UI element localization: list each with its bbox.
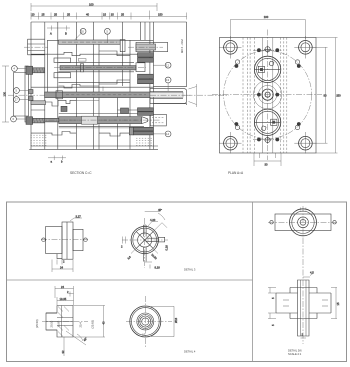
svg-text:25.4: 25.4 [79, 322, 83, 328]
top-left nozzle block [28, 39, 46, 55]
vertical divider [252, 202, 254, 362]
dim 3.27 [70, 214, 82, 221]
bolt circle dashed [224, 51, 312, 139]
dims 5 left [268, 288, 276, 327]
svg-text:150: 150 [158, 12, 163, 16]
centerlines [212, 30, 322, 161]
dim 8.10 bottom [145, 262, 161, 269]
dim 2 bottom [57, 260, 65, 265]
svg-text:A2: A2 [142, 333, 146, 337]
svg-text:100: 100 [3, 92, 7, 97]
dimension 150 right [316, 38, 341, 154]
svg-text:(25.63): (25.63) [91, 320, 95, 329]
svg-text:17: 17 [15, 98, 18, 102]
svg-text:40: 40 [102, 321, 106, 324]
right tall plate [153, 22, 186, 105]
dimension 100 overall top [31, 2, 157, 11]
svg-text:100: 100 [264, 15, 269, 19]
svg-text:13: 13 [166, 78, 169, 82]
sprue bushing center [253, 80, 281, 108]
svg-text:100: 100 [89, 2, 94, 6]
left bolt upper [26, 66, 45, 74]
svg-text:45°: 45° [158, 208, 162, 212]
svg-text:150: 150 [336, 93, 341, 97]
bottom fitting on centerline [264, 136, 271, 143]
balloon 5 left [14, 88, 29, 94]
svg-text:4.5: 4.5 [310, 271, 314, 275]
svg-text:DETAIL 3: DETAIL 3 [184, 268, 196, 272]
balloon 5 top [105, 28, 111, 43]
svg-text:20.55: 20.55 [50, 320, 54, 327]
left clamp bracket [14, 66, 29, 122]
svg-text:DETAIL 5/6: DETAIL 5/6 [288, 349, 302, 353]
horizontal divider [7, 279, 253, 281]
svg-text:(25.50): (25.50) [35, 319, 39, 328]
dim 0.16 right [165, 245, 169, 251]
svg-text:14: 14 [166, 132, 169, 136]
dim 3.6 diagonal [126, 247, 138, 261]
svg-text:25: 25 [42, 12, 45, 16]
plate outline [220, 38, 317, 154]
dim right vertical [331, 288, 340, 319]
dim 24 bottom [52, 260, 73, 273]
svg-text:25: 25 [121, 12, 124, 16]
dim 4.20 [148, 218, 158, 226]
dim 4.5 top [303, 271, 314, 278]
dimension row 20/25/25/25/40/15/15/25 [31, 11, 187, 20]
svg-text:24: 24 [60, 265, 63, 269]
angle leader 45 [66, 331, 88, 345]
corner leader pin bottom-right [299, 136, 313, 150]
coupler block [120, 40, 125, 52]
svg-text:15: 15 [103, 12, 106, 16]
central shaft [298, 280, 310, 336]
dim 10.50 diagonal [150, 246, 158, 261]
upper cavity steps [59, 51, 131, 88]
short horizontal centerlines through hole rows [253, 50, 283, 139]
balloon 20 top [74, 28, 86, 40]
svg-text:15: 15 [111, 12, 114, 16]
dimension 90 right inner [312, 47, 328, 143]
svg-text:SCALE 2:1: SCALE 2:1 [288, 352, 302, 356]
flange [276, 288, 331, 319]
svg-text:13.35: 13.35 [60, 297, 67, 301]
svg-text:30: 30 [265, 163, 268, 167]
bolt cluster right lower [121, 108, 154, 135]
balloon 14 right [153, 131, 171, 137]
vertical stripes [243, 38, 287, 154]
small light holes near cavities [235, 60, 299, 130]
top edge [31, 21, 187, 23]
nozzle bracket arrows [189, 84, 197, 107]
bolt cluster right upper [138, 53, 154, 84]
shaft 2 ejector band upper [54, 58, 146, 78]
corner leader pin bottom-left [224, 136, 238, 150]
balloon 6 lower left [11, 116, 26, 122]
right bracket dim [151, 306, 178, 336]
mid lines [31, 83, 153, 88]
balloon 12 right [153, 62, 171, 68]
screw heads at bracket edge [29, 90, 34, 94]
top fitting on centerline [264, 46, 271, 53]
svg-text:8.10: 8.10 [155, 265, 161, 269]
dim 24 top [55, 285, 74, 305]
dotted thread pads left [31, 135, 48, 145]
balloon 4 left [12, 66, 27, 72]
left vertical dimension 100 [2, 66, 9, 122]
svg-text:DETAIL 4: DETAIL 4 [184, 350, 196, 354]
dim 2 left [121, 237, 126, 249]
section arrows A B top [47, 26, 70, 36]
svg-text:Ø16: Ø16 [174, 317, 178, 323]
svg-text:SECTION C=C: SECTION C=C [70, 171, 92, 175]
dim 13.35 [57, 297, 74, 305]
internal horizontals [31, 40, 158, 146]
small bolt above lower band [61, 106, 67, 111]
svg-text:4.20: 4.20 [150, 218, 156, 222]
section arrows a b bottom [48, 156, 66, 164]
small 2 at shaft bottom [301, 333, 307, 339]
dimension 100 top [230, 15, 305, 39]
svg-text:B: B [65, 32, 67, 36]
dotted thread pads right [136, 138, 152, 145]
main horizontal centerline [8, 94, 229, 96]
dimension 30 bottom [254, 153, 281, 167]
svg-text:32: 32 [61, 350, 65, 353]
main center shaft [45, 87, 193, 104]
svg-text:13.85: 13.85 [56, 320, 60, 327]
verticals [45, 22, 154, 149]
corner leader pin top-right [299, 41, 313, 55]
left bolt lower [26, 117, 45, 125]
shaft 4 below center [31, 101, 46, 105]
lower cavity steps [46, 100, 131, 136]
balloon 17 left [14, 97, 29, 103]
svg-text:0.16: 0.16 [165, 245, 169, 251]
svg-text:15: 15 [336, 302, 340, 305]
svg-text:PLAN A=A: PLAN A=A [228, 171, 244, 175]
shaft 1 upper slider [59, 40, 121, 44]
svg-text:24: 24 [61, 285, 64, 289]
svg-text:25: 25 [54, 12, 57, 16]
balloon 13 right [165, 77, 171, 91]
outer frame [7, 202, 347, 362]
svg-text:12: 12 [166, 63, 169, 67]
svg-text:25: 25 [67, 12, 70, 16]
svg-text:20: 20 [81, 30, 84, 34]
svg-text:M8 4 - 21M: M8 4 - 21M [180, 39, 184, 53]
corner pin centerline ticks [219, 36, 317, 154]
svg-text:20: 20 [32, 12, 35, 16]
cavity insert top [254, 56, 280, 82]
main body outline [29, 22, 186, 149]
lower band shaft 5 [38, 114, 166, 127]
svg-text:3.27: 3.27 [76, 214, 82, 218]
cavity insert bottom [254, 109, 280, 135]
dark bolt holes column pattern [235, 48, 301, 141]
bottom edge [29, 148, 158, 150]
dim 32 bottom [61, 337, 65, 356]
svg-text:A: A [50, 32, 52, 36]
45 deg dimension [145, 208, 167, 240]
slider rect right [128, 42, 168, 51]
svg-text:40: 40 [86, 12, 89, 16]
left edge [30, 22, 32, 149]
svg-text:90: 90 [324, 93, 327, 97]
dim 2 [67, 290, 74, 297]
corner leader pin top-left [224, 41, 238, 55]
